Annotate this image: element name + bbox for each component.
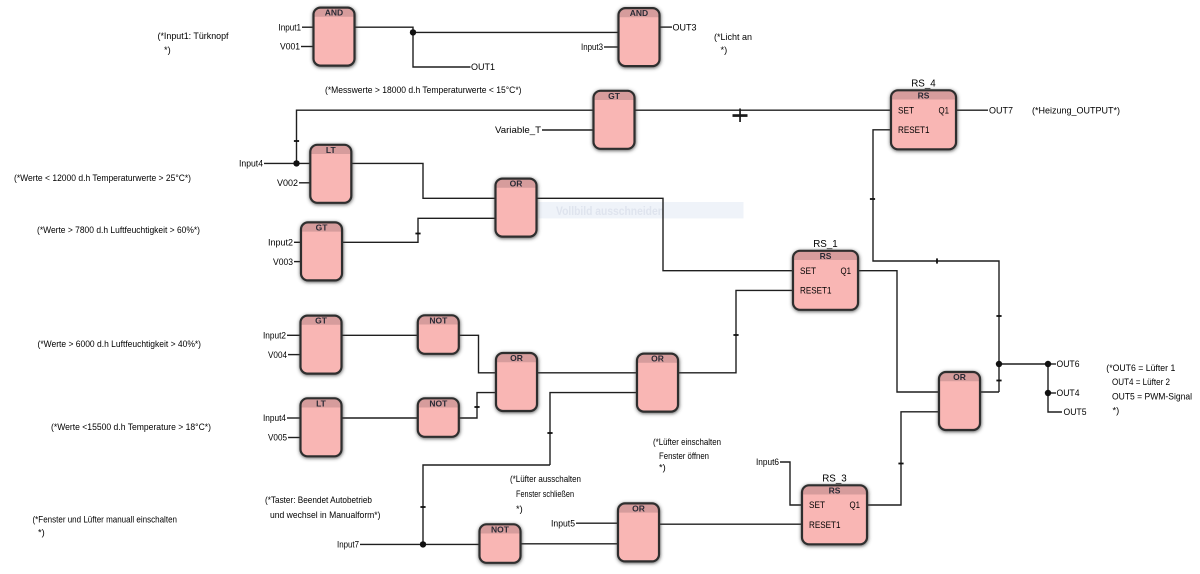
wire LT1 out to OR1 in1	[351, 163, 496, 198]
comparator GT2	[594, 91, 635, 149]
RS flip-flop RS_3	[802, 485, 867, 544]
wire Input7 branch up	[423, 465, 550, 544]
svg-text:*): *)	[1113, 405, 1120, 415]
svg-text:Input3: Input3	[581, 42, 603, 52]
svg-text:*): *)	[721, 45, 728, 55]
wire Input4 to LT2 in1	[287, 417, 301, 419]
wire RS_3 Q1 to OR4 in2	[868, 412, 940, 505]
svg-text:V004: V004	[268, 350, 287, 360]
svg-text:(*Werte <15500 d.h Temperature: (*Werte <15500 d.h Temperature > 18°C*)	[51, 422, 211, 432]
wire GT1 out to OR1 in2	[342, 218, 496, 242]
wire LT2 out to NOT2	[341, 417, 418, 419]
svg-text:OUT6: OUT6	[1057, 359, 1080, 369]
svg-text:Fenster schließen: Fenster schließen	[516, 489, 574, 499]
svg-text:V002: V002	[277, 178, 298, 188]
svg-text:(*Fenster und Lüfter manuall e: (*Fenster und Lüfter manuall einschalten	[33, 515, 178, 525]
junction OUT6 node	[1045, 361, 1051, 367]
svg-text:OUT1: OUT1	[471, 62, 495, 72]
wire Input2 to GT3 in1	[287, 334, 301, 336]
wire RS_4 RESET1 to output node	[873, 130, 999, 392]
comparator GT3	[301, 316, 342, 374]
wire AND2 out to OUT3	[658, 26, 672, 28]
svg-text:Q1: Q1	[841, 266, 852, 276]
svg-text:(*Lüfter einschalten: (*Lüfter einschalten	[653, 437, 721, 447]
svg-text:Vollbild ausschneiden: Vollbild ausschneiden	[556, 206, 664, 218]
svg-text:NOT: NOT	[429, 315, 448, 325]
svg-text:Input4: Input4	[239, 159, 263, 169]
svg-text:V003: V003	[273, 257, 293, 267]
AND gate AND1	[314, 8, 355, 66]
NOT gate NOT2	[418, 398, 459, 437]
svg-text:OUT7: OUT7	[989, 105, 1013, 115]
svg-text:RS_1: RS_1	[813, 239, 838, 250]
wire NOT3 out to OR5 in2	[520, 543, 618, 545]
svg-text:Variable_T: Variable_T	[495, 125, 541, 135]
handle tick	[294, 140, 299, 142]
AND gate AND2	[619, 8, 660, 66]
svg-text:RS_4: RS_4	[911, 78, 936, 89]
svg-text:RS: RS	[918, 90, 930, 100]
svg-text:V001: V001	[280, 42, 300, 52]
svg-text:LT: LT	[316, 398, 327, 408]
svg-text:RESET1: RESET1	[800, 286, 832, 296]
svg-text:*): *)	[38, 528, 45, 538]
svg-text:(*Heizung_OUTPUT*): (*Heizung_OUTPUT*)	[1032, 106, 1120, 116]
svg-text:Input7: Input7	[337, 540, 359, 550]
wire AND1 out to junction	[354, 27, 471, 67]
comparator LT2	[301, 398, 342, 456]
svg-text:Input2: Input2	[263, 331, 286, 341]
OR gate OR1	[496, 179, 537, 237]
svg-text:OUT5: OUT5	[1064, 407, 1087, 417]
svg-text:RS: RS	[829, 485, 841, 495]
svg-text:(*OUT6 = Lüfter 1: (*OUT6 = Lüfter 1	[1106, 363, 1175, 373]
svg-text:OUT3: OUT3	[673, 22, 697, 32]
wire Input2 to GT1 in1	[294, 241, 301, 243]
wire node up to GT2 in1	[297, 110, 594, 163]
svg-text:Input6: Input6	[756, 457, 779, 467]
wire Variable_T to GT2 in2	[542, 129, 594, 131]
OR gate OR5	[618, 503, 659, 561]
handle tick	[898, 463, 903, 465]
svg-text:RESET1: RESET1	[809, 520, 841, 530]
wire manual branch to OR3 in2	[550, 393, 637, 465]
junction Input4 node	[293, 160, 299, 166]
wire GT2 out to RS_4 SET	[634, 109, 891, 111]
overlay band "Vollbild ausschneiden"	[539, 202, 744, 218]
OR gate OR2	[496, 353, 537, 411]
svg-text:(*Messwerte > 18000 d.h Temper: (*Messwerte > 18000 d.h Temperaturwerte …	[325, 85, 522, 95]
svg-text:GT: GT	[315, 316, 328, 326]
handle tick	[547, 432, 552, 434]
junction OUT4 node	[1045, 390, 1051, 396]
svg-text:SET: SET	[809, 500, 825, 510]
wire V001 to AND1 in2	[301, 46, 314, 48]
junction output node	[996, 361, 1002, 367]
svg-text:RS_3: RS_3	[822, 473, 847, 484]
handle tick	[733, 334, 738, 336]
svg-text:(*Taster: Beendet Autobetrieb: (*Taster: Beendet Autobetrieb	[265, 495, 372, 505]
comparator LT1	[310, 145, 351, 203]
svg-text:und wechsel in Manualform*): und wechsel in Manualform*)	[270, 510, 381, 520]
NOT gate NOT3	[480, 524, 521, 563]
wire OR1 out to RS_1 SET	[536, 198, 793, 270]
svg-text:Input4: Input4	[263, 413, 286, 423]
RS flip-flop RS_4	[891, 90, 956, 149]
wire OR2 out to OR3 in1	[537, 372, 637, 374]
wire Input7 to NOT3	[360, 543, 480, 545]
handle tick	[936, 258, 938, 263]
svg-text:*): *)	[164, 45, 171, 55]
wire RS_1 Q1 to OR4 in1	[858, 271, 939, 392]
svg-text:OUT4 = Lüfter 2: OUT4 = Lüfter 2	[1112, 377, 1170, 387]
svg-text:RESET1: RESET1	[898, 125, 930, 135]
wire Input6 to RS_3 SET	[780, 462, 802, 505]
svg-text:(*Werte < 12000 d.h Temperatur: (*Werte < 12000 d.h Temperaturwerte > 25…	[14, 173, 191, 183]
wire Input4 to LT1 in1	[264, 162, 310, 164]
svg-text:(*Input1: Türknopf: (*Input1: Türknopf	[158, 31, 229, 41]
svg-text:Input2: Input2	[268, 238, 293, 248]
svg-text:NOT: NOT	[429, 398, 448, 408]
svg-text:Input5: Input5	[551, 518, 575, 528]
svg-text:*): *)	[516, 504, 523, 514]
svg-text:*): *)	[659, 463, 666, 473]
wire GT3 out to NOT1	[341, 334, 418, 336]
svg-text:OUT4: OUT4	[1057, 388, 1080, 398]
handle tick	[415, 233, 420, 235]
wire NOT1 out to OR2 in1	[458, 335, 496, 373]
svg-text:AND: AND	[325, 8, 343, 18]
svg-text:Input1: Input1	[279, 22, 302, 32]
svg-text:OR: OR	[510, 179, 523, 189]
RS flip-flop RS_1	[793, 251, 858, 310]
wire OR5 out to RS_3 RESET1	[659, 523, 802, 525]
wire junction to AND2 in1	[413, 31, 619, 33]
svg-text:OR: OR	[651, 354, 664, 364]
wire node to OUT6/OUT4/OUT5 branch	[999, 364, 1062, 412]
wire stub OUT6	[1048, 363, 1056, 365]
handle tick	[996, 380, 1001, 382]
junction AND1 out	[410, 29, 416, 35]
wire OR3 out to RS_1 RESET1	[678, 290, 793, 372]
wire stub OUT4	[1048, 392, 1056, 394]
svg-text:OR: OR	[632, 503, 645, 513]
handle tick	[870, 198, 875, 200]
svg-text:GT: GT	[608, 91, 621, 101]
svg-text:LT: LT	[326, 145, 337, 155]
svg-text:SET: SET	[898, 105, 914, 115]
svg-text:OR: OR	[510, 353, 523, 363]
handle tick	[420, 506, 425, 508]
wire NOT2 out to OR2 in2	[458, 393, 496, 418]
OR gate OR4	[939, 372, 980, 430]
svg-text:GT: GT	[316, 222, 329, 232]
handle tick	[996, 315, 1001, 317]
handle tick	[474, 406, 479, 408]
wire Input1 to AND1 in1	[302, 26, 314, 28]
svg-text:RS: RS	[820, 251, 832, 261]
svg-text:(*Licht an: (*Licht an	[714, 32, 752, 42]
svg-text:OR: OR	[953, 372, 966, 382]
svg-text:(*Lüfter ausschalten: (*Lüfter ausschalten	[510, 474, 581, 484]
wire Input5 to OR5 in1	[576, 522, 618, 524]
mouse crosshair cursor	[733, 109, 748, 123]
wire V002 to LT1 in2	[299, 182, 310, 184]
svg-text:NOT: NOT	[491, 524, 510, 534]
svg-text:(*Werte > 6000 d.h Luftfeuchti: (*Werte > 6000 d.h Luftfeuchtigkeit > 40…	[38, 339, 202, 349]
svg-text:(*Werte > 7800 d.h Luftfeuchti: (*Werte > 7800 d.h Luftfeuchtigkeit > 60…	[37, 225, 200, 235]
comparator GT1	[301, 222, 342, 280]
wire Input3 to AND2 in2	[604, 46, 619, 48]
svg-text:Q1: Q1	[850, 500, 861, 510]
wire OR4 out to node	[980, 391, 999, 393]
svg-text:Fenster öffnen: Fenster öffnen	[659, 451, 709, 461]
svg-text:OUT5 = PWM-Signal: OUT5 = PWM-Signal	[1112, 392, 1192, 402]
wire V004 to GT3 in2	[288, 354, 301, 356]
wire V005 to LT2 in2	[288, 437, 301, 439]
svg-text:Q1: Q1	[939, 105, 950, 115]
svg-text:AND: AND	[630, 8, 648, 18]
svg-text:V005: V005	[268, 433, 287, 443]
wire RS_4 Q1 to OUT7	[956, 109, 988, 111]
OR gate OR3	[637, 354, 678, 412]
wire V003 to GT1 in2	[294, 261, 301, 263]
NOT gate NOT1	[418, 315, 459, 354]
junction Input7 node	[420, 541, 426, 547]
svg-text:SET: SET	[800, 266, 816, 276]
